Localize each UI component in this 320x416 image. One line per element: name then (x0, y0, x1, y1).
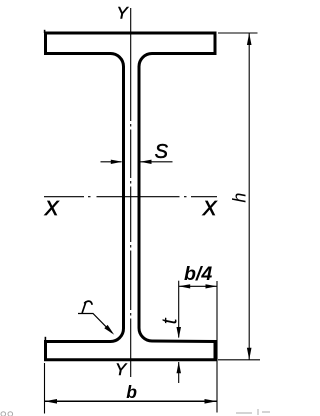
svg-text:Y: Y (115, 361, 127, 379)
dimension s: right arrowhead (140, 160, 152, 164)
svg-text:S: S (155, 141, 169, 163)
dimension s: left arrowhead (111, 160, 123, 164)
dimension t: lower line (178, 362, 180, 383)
leader r: polyline (78, 314, 112, 333)
svg-text:h: h (230, 193, 250, 203)
dimension t: upper line (shared with b/4 left extension) (178, 281, 180, 338)
centerline X-X (horizontal axis) (44, 196, 217, 198)
dimension b: left extension line (44, 363, 46, 414)
dimension b/4: dimension line (179, 285, 217, 287)
svg-text:Y: Y (117, 5, 129, 23)
dimension b: dimension line (45, 400, 218, 402)
dimension h: bottom extension line (218, 359, 260, 361)
dimension t: lower arrowhead (up) (177, 362, 182, 374)
scan artifact bottom-right (236, 409, 270, 415)
dimension b: right arrowhead (205, 399, 218, 404)
dimension h: top extension line (218, 32, 258, 34)
dimension h: top arrowhead (247, 33, 252, 45)
leader r: arrowhead (104, 325, 114, 335)
scan artifact bottom-left (1, 412, 13, 416)
dimension s: right arrow line (141, 161, 173, 163)
dimension b/4: left arrowhead (179, 284, 191, 288)
svg-text:X: X (202, 197, 218, 220)
corner tick bottom flange left (44, 337, 46, 341)
dimension h: bottom arrowhead (247, 348, 252, 360)
svg-text:X: X (44, 197, 60, 220)
svg-text:b/4: b/4 (184, 263, 212, 285)
dimension b/4: right arrowhead (206, 284, 218, 288)
dimension t: upper arrowhead (down) (177, 327, 182, 339)
dimension b: left arrowhead (45, 399, 58, 404)
I-beam outline (46, 33, 216, 360)
dimension b: right extension line (shared with b/4) (216, 281, 218, 413)
dimension s: left arrow line (101, 161, 122, 163)
label r (82, 301, 92, 312)
dimension h: dimension line (248, 33, 250, 360)
centerline Y-Y (vertical axis) (130, 8, 132, 377)
svg-text:b: b (126, 382, 137, 402)
svg-text:t: t (158, 317, 182, 324)
corner tick top flange left (44, 30, 46, 33)
